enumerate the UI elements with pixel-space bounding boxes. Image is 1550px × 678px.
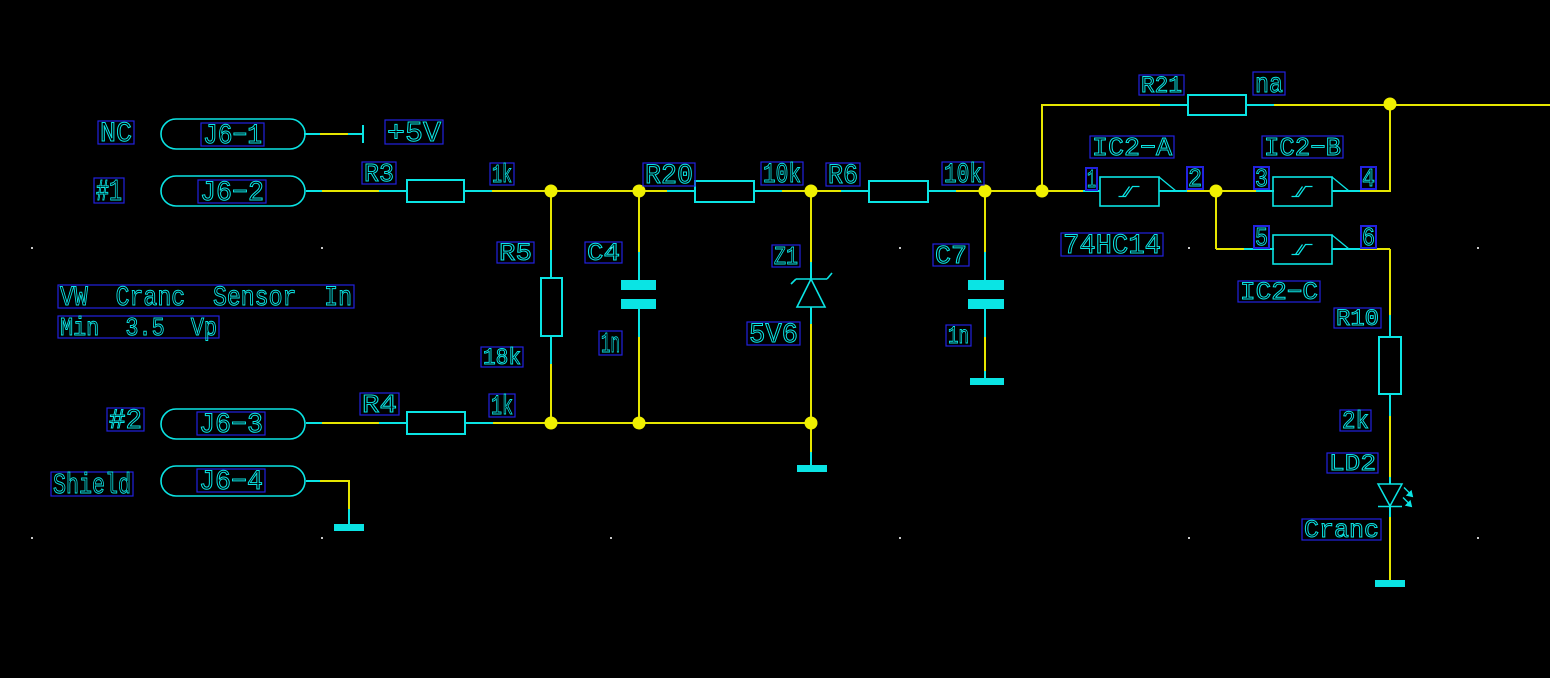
svg-text:1k: 1k: [492, 160, 512, 190]
svg-text:1n: 1n: [601, 328, 620, 361]
svg-text:R3: R3: [364, 159, 394, 189]
svg-text:NC: NC: [100, 119, 132, 150]
svg-text:J6−2: J6−2: [200, 178, 264, 209]
svg-text:Cranc: Cranc: [1304, 517, 1379, 545]
svg-text:R6: R6: [828, 161, 858, 192]
svg-text:74HC14: 74HC14: [1063, 231, 1161, 262]
svg-text:1: 1: [1087, 165, 1096, 195]
svg-text:10k: 10k: [763, 160, 801, 191]
svg-text:R21: R21: [1141, 73, 1182, 99]
svg-text:5: 5: [1255, 223, 1268, 253]
svg-text:#2: #2: [109, 406, 142, 437]
svg-text:IC2−C: IC2−C: [1240, 279, 1318, 307]
svg-text:R4: R4: [362, 390, 397, 420]
svg-text:+5V: +5V: [387, 117, 442, 150]
svg-text:C7: C7: [935, 241, 967, 271]
svg-text:J6−4: J6−4: [199, 467, 263, 498]
svg-text:2: 2: [1188, 164, 1202, 194]
svg-text:IC2−A: IC2−A: [1092, 133, 1172, 163]
svg-text:na: na: [1255, 70, 1283, 101]
svg-text:Z1: Z1: [774, 242, 798, 272]
svg-text:5V6: 5V6: [749, 320, 798, 351]
svg-text:3: 3: [1255, 164, 1268, 194]
svg-text:IC2−B: IC2−B: [1264, 133, 1341, 163]
svg-text:R20: R20: [645, 161, 693, 192]
svg-text:2k: 2k: [1342, 408, 1369, 436]
svg-text:Min 3.5 Vp: Min 3.5 Vp: [60, 313, 217, 343]
svg-text:4: 4: [1362, 164, 1375, 194]
svg-text:C4: C4: [587, 240, 620, 268]
svg-text:R5: R5: [499, 240, 532, 268]
svg-text:Shield: Shield: [53, 469, 131, 502]
svg-text:#1: #1: [96, 176, 122, 210]
svg-text:18k: 18k: [483, 345, 521, 371]
svg-text:J6−1: J6−1: [203, 121, 262, 152]
svg-text:R10: R10: [1336, 306, 1379, 332]
svg-text:10k: 10k: [944, 160, 982, 191]
svg-text:VW Cranc Sensor In: VW Cranc Sensor In: [60, 283, 352, 314]
svg-text:1k: 1k: [491, 392, 513, 423]
svg-text:6: 6: [1362, 223, 1375, 253]
svg-text:1n: 1n: [948, 323, 969, 351]
svg-text:LD2: LD2: [1329, 451, 1376, 477]
svg-text:J6−3: J6−3: [199, 410, 263, 441]
